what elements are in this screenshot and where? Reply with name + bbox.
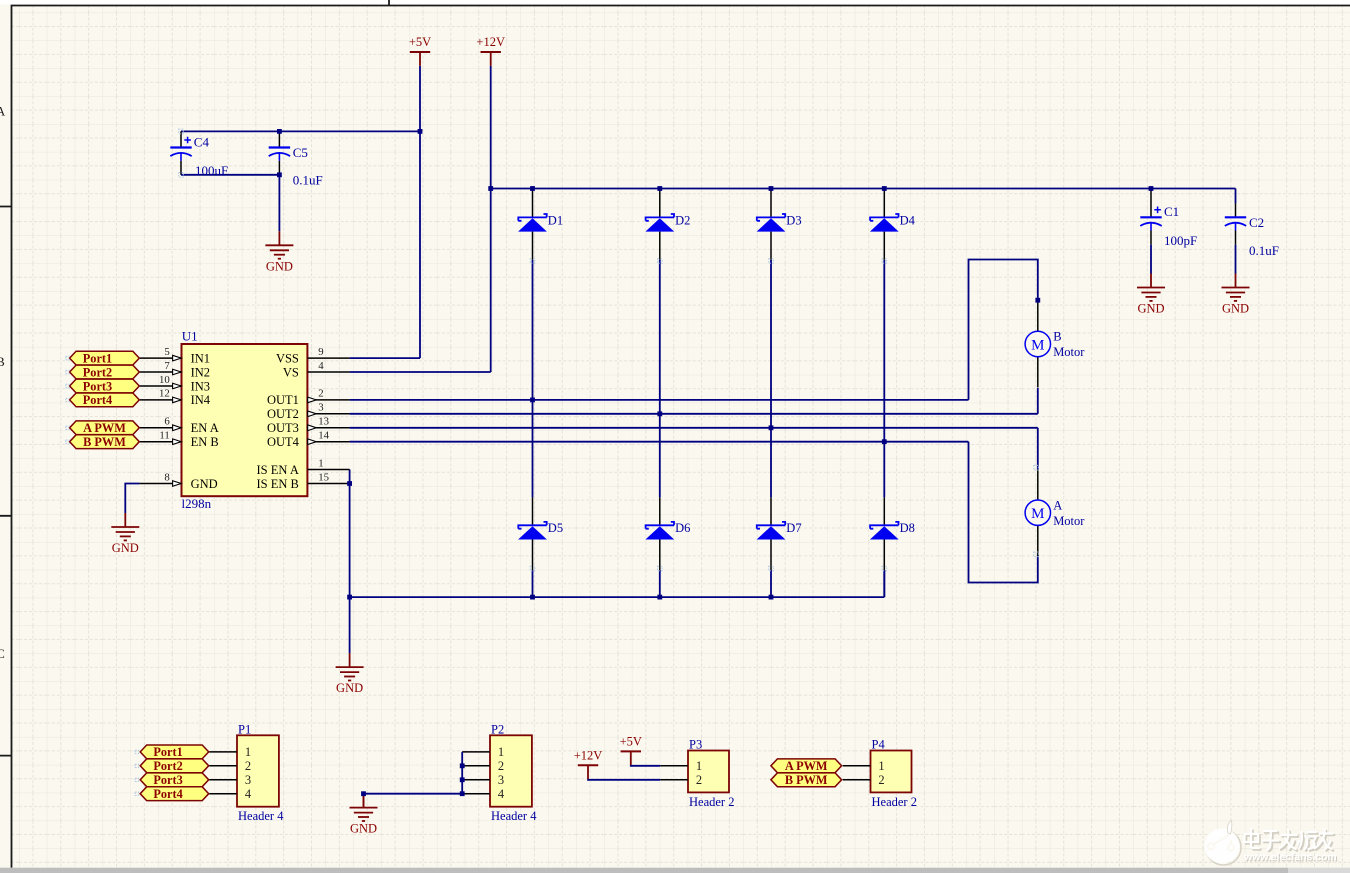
- wire P2 pins bus: [461, 752, 463, 794]
- diode D2: [645, 213, 690, 231]
- svg-text:D1: D1: [548, 213, 563, 227]
- wire P2 pin4 to GND: [364, 793, 463, 795]
- wire C4 left vertical top: [180, 131, 182, 147]
- wire column D1/D5: [532, 260, 534, 498]
- pin 8 (GND): [140, 471, 218, 491]
- motor B Motor: [1025, 301, 1085, 388]
- pin D2 anode/cathode leads: [659, 189, 661, 218]
- connector P1 (Header 4): [209, 722, 284, 823]
- pin 11 (EN B): [140, 430, 219, 450]
- pin 10 (IN3): [140, 374, 210, 394]
- wire +5V to P3 pin1: [631, 764, 660, 767]
- watermark logo elecfans: [1205, 821, 1242, 866]
- wire C5 bottom to GND: [278, 175, 280, 232]
- power +5V at P3: [620, 734, 642, 765]
- svg-text:EN B: EN B: [191, 435, 219, 449]
- svg-text:D5: D5: [548, 521, 563, 535]
- pin D5 leads: [532, 497, 534, 525]
- svg-text:OUT1: OUT1: [267, 393, 299, 407]
- svg-text:0.1uF: 0.1uF: [293, 172, 323, 187]
- port Port1: [70, 351, 140, 365]
- svg-text:GND: GND: [336, 681, 363, 695]
- svg-text:+5V: +5V: [409, 35, 431, 49]
- svg-text:D3: D3: [786, 213, 801, 227]
- svg-text:7: 7: [164, 360, 170, 372]
- svg-text:4: 4: [498, 787, 505, 801]
- svg-text:4: 4: [245, 787, 252, 801]
- scrollbar: [0, 868, 1288, 873]
- junction: [1149, 186, 1154, 191]
- junction: [769, 595, 774, 600]
- junction: [347, 481, 352, 486]
- wire column D2/D6: [659, 260, 661, 498]
- svg-text:2: 2: [878, 773, 884, 787]
- pin 9 (VSS): [276, 346, 350, 366]
- svg-text:A: A: [1053, 498, 1062, 512]
- junction: [882, 439, 887, 444]
- junction: [769, 186, 774, 191]
- svg-text:15: 15: [318, 471, 329, 483]
- wire OUT4: [350, 441, 969, 443]
- junction: [657, 186, 662, 191]
- pin C2 bottom: [1235, 231, 1237, 245]
- svg-text:EN A: EN A: [191, 421, 219, 435]
- diode D1: [518, 213, 563, 231]
- svg-text:Port2: Port2: [83, 365, 112, 379]
- svg-text:GND: GND: [266, 259, 293, 273]
- diode D5: [518, 521, 563, 539]
- svg-text:4: 4: [318, 360, 324, 372]
- svg-text:D8: D8: [900, 521, 915, 535]
- wire GND drop P2: [363, 794, 365, 808]
- svg-text:OUT4: OUT4: [267, 435, 300, 449]
- svg-text:D4: D4: [900, 213, 916, 227]
- wire IS EN B down: [349, 484, 351, 598]
- pin 3 (OUT2): [267, 402, 350, 422]
- pin D1 anode/cathode leads: [532, 189, 534, 218]
- svg-text:Header 2: Header 2: [872, 795, 917, 809]
- pin C5 bottom: [278, 161, 280, 175]
- wire +5V vertical: [419, 66, 421, 358]
- pin D4 anode/cathode leads: [883, 189, 885, 218]
- svg-text:VSS: VSS: [276, 351, 299, 365]
- svg-text:IN2: IN2: [191, 365, 210, 379]
- wire OUT1: [350, 399, 969, 401]
- wire C2 drop: [1235, 189, 1237, 204]
- ground GND under C2: [1222, 274, 1250, 301]
- svg-text:2: 2: [696, 773, 702, 787]
- svg-text:1: 1: [696, 759, 702, 773]
- pin D6 leads: [659, 497, 661, 525]
- junction: [1035, 298, 1040, 303]
- motor A Motor: [1025, 469, 1085, 556]
- svg-text:Motor: Motor: [1053, 514, 1085, 528]
- port Port2 (bottom): [140, 759, 209, 773]
- diode D4: [870, 213, 916, 231]
- pin D7 leads: [770, 497, 772, 525]
- wire +12V bus top: [491, 188, 1236, 190]
- wire motor B bottom: [1037, 388, 1039, 414]
- pin C2 top: [1235, 203, 1237, 217]
- svg-text:M: M: [1031, 337, 1044, 353]
- svg-text:P1: P1: [238, 722, 251, 736]
- port Port1 (bottom): [140, 745, 209, 759]
- svg-text:Port3: Port3: [153, 773, 182, 787]
- svg-text:0.1uF: 0.1uF: [1249, 243, 1279, 258]
- svg-text:GND: GND: [1222, 302, 1249, 316]
- wire C1 to GND: [1150, 245, 1152, 274]
- wire column D4/D8: [883, 260, 885, 498]
- junction: [882, 186, 887, 191]
- connector P3 (Header 2): [660, 738, 734, 809]
- svg-text:P4: P4: [872, 738, 886, 752]
- svg-text:VS: VS: [283, 365, 299, 379]
- svg-text:Header 4: Header 4: [491, 809, 537, 823]
- svg-text:2: 2: [245, 759, 251, 773]
- wire +12V to P3 pin2: [588, 778, 660, 781]
- pin-end markers (faint): [66, 129, 1038, 795]
- junction: [460, 763, 465, 768]
- diode D6: [645, 521, 690, 539]
- svg-text:3: 3: [318, 402, 323, 414]
- svg-text:10: 10: [159, 374, 170, 386]
- svg-text:5: 5: [164, 346, 169, 358]
- svg-text:11: 11: [159, 430, 169, 442]
- port A PWM: [70, 421, 140, 435]
- svg-text:1: 1: [245, 745, 251, 759]
- svg-text:Port3: Port3: [83, 379, 112, 393]
- wire VS to +12V: [350, 371, 491, 373]
- port A PWM (bottom): [771, 759, 842, 773]
- svg-text:GND: GND: [350, 822, 377, 836]
- svg-text:OUT3: OUT3: [267, 421, 299, 435]
- diode D3: [757, 213, 802, 231]
- svg-text:B: B: [0, 354, 5, 369]
- junction: [488, 186, 493, 191]
- svg-text:+12V: +12V: [574, 748, 603, 762]
- wire bottom bus: [350, 596, 885, 598]
- svg-text:+12V: +12V: [476, 35, 505, 49]
- port B PWM (bottom): [771, 773, 842, 787]
- svg-text:U1: U1: [182, 329, 198, 344]
- svg-text:D2: D2: [675, 213, 690, 227]
- power +12V: [476, 35, 505, 66]
- svg-text:Port4: Port4: [153, 787, 182, 801]
- ground GND under C1: [1137, 274, 1165, 301]
- wire +12V vertical: [490, 66, 492, 372]
- wire motor A loop: [969, 442, 1038, 583]
- junction: [361, 791, 366, 796]
- capacitor C5: [269, 148, 290, 161]
- svg-text:Port1: Port1: [153, 745, 182, 759]
- svg-text:M: M: [1031, 506, 1044, 522]
- svg-text:8: 8: [164, 471, 169, 483]
- wire IS EN A corner: [349, 470, 351, 484]
- pin C1 top: [1150, 189, 1152, 218]
- pin 2 (OUT1): [267, 388, 350, 408]
- op-amp U1 body (L298N): [182, 344, 308, 496]
- svg-text:13: 13: [318, 416, 329, 428]
- svg-text:+5V: +5V: [620, 734, 642, 748]
- pin C5 top: [278, 131, 280, 147]
- svg-text:OUT2: OUT2: [267, 407, 299, 421]
- junction: [530, 398, 535, 403]
- ground GND bottom bus: [336, 653, 364, 680]
- capacitor C2: [1225, 217, 1246, 230]
- wire bus GND drop: [349, 597, 351, 653]
- port Port2: [70, 365, 140, 379]
- port Port4 (bottom): [140, 787, 209, 801]
- ground GND near P2: [350, 794, 378, 821]
- svg-text:B: B: [1053, 330, 1061, 344]
- capacitor C1: [1140, 207, 1161, 231]
- wire C2 to GND: [1235, 245, 1237, 274]
- wire VSS to +5V: [350, 357, 420, 359]
- svg-text:Port2: Port2: [153, 759, 182, 773]
- power +5V: [409, 35, 431, 66]
- svg-text:C1: C1: [1164, 204, 1179, 219]
- pin 4 (VS): [283, 360, 350, 380]
- wire C4 bottom to C5 bottom: [181, 174, 279, 176]
- svg-text:l298n: l298n: [182, 496, 212, 511]
- port Port3: [70, 379, 140, 393]
- connector P2 (Header 4): [462, 722, 537, 823]
- svg-text:GND: GND: [191, 477, 218, 491]
- port B PWM: [70, 435, 140, 449]
- svg-text:A PWM: A PWM: [83, 421, 126, 435]
- wire C4 left vertical bottom: [180, 161, 182, 175]
- diode D7: [757, 521, 802, 539]
- svg-text:A: A: [0, 104, 6, 119]
- junction: [347, 595, 352, 600]
- junction: [657, 411, 662, 416]
- svg-text:3: 3: [498, 773, 504, 787]
- svg-text:C4: C4: [194, 134, 210, 149]
- svg-text:D6: D6: [675, 521, 690, 535]
- junction: [530, 595, 535, 600]
- port Port3 (bottom): [140, 773, 209, 787]
- svg-text:C2: C2: [1249, 215, 1264, 230]
- pin D8 leads: [883, 497, 885, 525]
- connector P4 (Header 2): [843, 738, 917, 809]
- junction: [657, 595, 662, 600]
- wire OUT3: [350, 427, 1038, 429]
- svg-text:12: 12: [159, 388, 170, 400]
- wire GND pin8: [125, 484, 139, 514]
- svg-text:1: 1: [878, 759, 884, 773]
- svg-text:Motor: Motor: [1053, 345, 1085, 359]
- svg-text:B PWM: B PWM: [785, 773, 828, 787]
- svg-text:9: 9: [318, 346, 323, 358]
- wire OUT2: [350, 413, 1038, 415]
- svg-text:6: 6: [164, 416, 170, 428]
- capacitor C4: [170, 137, 191, 161]
- ground GND under U1 pin8: [111, 513, 139, 540]
- wire motor B loop: [969, 260, 1038, 400]
- pin 12 (IN4): [140, 388, 211, 408]
- pin 15 (IS EN B): [257, 471, 350, 491]
- svg-text:2: 2: [498, 759, 504, 773]
- svg-text:2: 2: [318, 388, 323, 400]
- svg-text:3: 3: [245, 773, 251, 787]
- svg-text:A PWM: A PWM: [785, 759, 828, 773]
- junction: [460, 791, 465, 796]
- svg-text:100pF: 100pF: [1164, 233, 1197, 248]
- junction: [460, 777, 465, 782]
- wire motor A top: [1037, 428, 1039, 470]
- svg-text:B PWM: B PWM: [83, 435, 126, 449]
- watermark chinese text: [1245, 829, 1335, 851]
- pin 5 (IN1): [140, 346, 210, 366]
- svg-text:C5: C5: [293, 145, 308, 160]
- junction: [530, 186, 535, 191]
- junction: [277, 172, 282, 177]
- svg-text:P2: P2: [491, 722, 504, 736]
- svg-text:IS EN B: IS EN B: [257, 477, 299, 491]
- pin 1 (IS EN A): [257, 457, 350, 477]
- svg-text:IN3: IN3: [191, 379, 210, 393]
- svg-text:P3: P3: [689, 738, 702, 752]
- svg-text:IS EN A: IS EN A: [257, 463, 299, 477]
- svg-text:IN4: IN4: [191, 393, 211, 407]
- port Port4: [70, 393, 140, 407]
- junction: [769, 425, 774, 430]
- pin 6 (EN A): [140, 416, 219, 436]
- junction: [277, 129, 282, 134]
- svg-text:1: 1: [498, 745, 504, 759]
- svg-text:D7: D7: [786, 521, 801, 535]
- ground GND under C5: [265, 231, 293, 258]
- svg-text:Header 4: Header 4: [238, 809, 284, 823]
- diode D8: [870, 521, 915, 539]
- wire D8 column bottom: [883, 570, 885, 597]
- pin 14 (OUT4): [267, 430, 350, 450]
- svg-text:Port1: Port1: [83, 351, 112, 365]
- pin 13 (OUT3): [267, 416, 350, 436]
- svg-text:Header 2: Header 2: [689, 795, 734, 809]
- pin C1 bottom: [1150, 231, 1152, 245]
- svg-text:IN1: IN1: [191, 351, 210, 365]
- svg-text:C: C: [0, 646, 5, 661]
- power +12V at P3: [574, 748, 603, 779]
- svg-text:14: 14: [318, 430, 329, 442]
- wire C4 top to +5V net: [181, 130, 420, 132]
- svg-text:GND: GND: [1137, 302, 1164, 316]
- svg-text:www.elecfans.com: www.elecfans.com: [1243, 852, 1337, 863]
- junction: [418, 129, 423, 134]
- pin 7 (IN2): [140, 360, 210, 380]
- svg-text:GND: GND: [112, 541, 139, 555]
- pin D3 anode/cathode leads: [770, 189, 772, 218]
- svg-text:Port4: Port4: [83, 393, 112, 407]
- svg-text:1: 1: [318, 457, 323, 469]
- svg-text:100uF: 100uF: [195, 163, 228, 178]
- wire column D3/D7: [770, 260, 772, 498]
